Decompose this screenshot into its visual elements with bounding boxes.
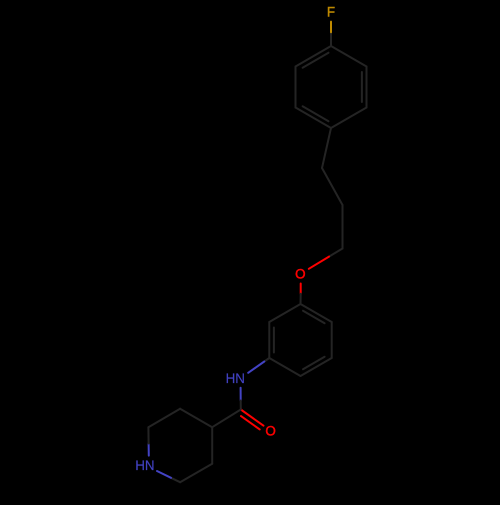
benzene ring 2 (central phenylene) [269,304,331,376]
bond N-C carbonyl (blue half near N) [240,388,242,410]
bond C1ring-F (fluorine, orange half) [330,22,332,46]
bond ring2-NH amide (blue half near N) [248,358,269,373]
double bond C=O (carbonyl, red) [241,410,264,430]
bond NH-ring3 upper-left (blue half near N) [147,427,149,455]
bond CH2-O ether (red half near O) [309,249,343,269]
bond O-ring2 top (red half near O) [300,284,302,305]
svg-text:HN: HN [226,371,245,386]
svg-text:O: O [295,266,305,281]
bond ring3 bottom-NH (blue half near N) [157,471,180,482]
svg-text:F: F [327,4,335,19]
propyl chain bond a (ring1 bottom to CH2) [322,128,331,168]
propyl chain bond b [322,168,343,205]
svg-text:HN: HN [135,458,154,473]
bond carbonylC-ring3 [212,410,241,428]
benzene ring 1 (4-fluorophenyl) [296,46,367,128]
piperidine ring 3 [148,409,212,483]
propyl chain bond c [342,205,344,249]
svg-text:O: O [265,423,275,438]
